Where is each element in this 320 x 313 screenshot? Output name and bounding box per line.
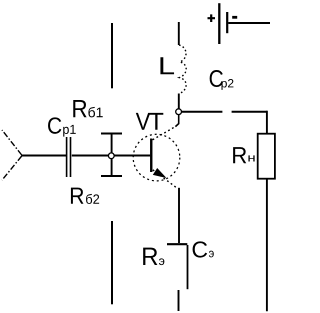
battery plus sign bbox=[208, 14, 216, 22]
wire Rb1 upper bbox=[111, 23, 113, 88]
wire battery to right bbox=[228, 22, 270, 24]
wire emitter down bbox=[178, 188, 180, 243]
node A junction circle bbox=[108, 153, 114, 159]
transistor VT label bbox=[136, 113, 164, 130]
capacitor Ce top plate bar bbox=[167, 243, 187, 245]
wire inductor to supply bbox=[178, 22, 180, 45]
transistor VT base bar bbox=[150, 139, 152, 173]
node B junction circle bbox=[176, 109, 182, 115]
collector corner to node B bbox=[175, 115, 178, 127]
resistor Rn body bbox=[258, 134, 275, 179]
transistor VT emitter lead (dashed diagonal) bbox=[153, 170, 177, 188]
wire Rb2 lower bbox=[111, 221, 113, 304]
wire below Rn bbox=[266, 179, 268, 311]
Rb1 Rb2 vertical stub through node A bbox=[111, 135, 113, 176]
wire bottom stub bbox=[178, 290, 180, 311]
wire input to Cp1 bbox=[21, 155, 66, 157]
Rb1 top terminal bar bbox=[101, 133, 122, 135]
wire node B to Cp2 bbox=[182, 111, 223, 113]
wire node A to base bbox=[114, 155, 150, 157]
wire corner down to Rn bbox=[266, 111, 268, 134]
transistor VT collector lead (dashed diagonal) bbox=[153, 126, 176, 140]
capacitor Cp2 label bbox=[210, 70, 234, 90]
Rb2 bottom terminal bar bbox=[101, 175, 122, 177]
resistor Rn label bbox=[233, 147, 255, 163]
battery minus sign bbox=[232, 16, 237, 19]
transistor VT body circle (dashed) bbox=[133, 134, 180, 181]
inductor L label bbox=[160, 57, 174, 74]
wire collector to inductor bbox=[178, 94, 180, 109]
wire Cp2 to Rn corner bbox=[232, 111, 267, 113]
capacitor Ce right lead bbox=[187, 245, 189, 289]
input source symbol (dashed Y) bbox=[2, 130, 22, 180]
Cp1 value label bbox=[48, 117, 76, 136]
inductor L coil (dotted arcs) bbox=[179, 45, 186, 94]
capacitor Ce label bbox=[193, 241, 214, 257]
resistor Rb1 label bbox=[73, 100, 102, 117]
wire Cp1 to node A bbox=[72, 155, 109, 157]
battery negative plate bbox=[226, 12, 228, 33]
resistor Re label bbox=[143, 248, 164, 265]
capacitor Cp1 plates bbox=[67, 137, 71, 177]
emitter arrow bbox=[153, 168, 167, 178]
resistor Rb2 label bbox=[71, 188, 99, 204]
battery positive plate bbox=[218, 3, 220, 44]
